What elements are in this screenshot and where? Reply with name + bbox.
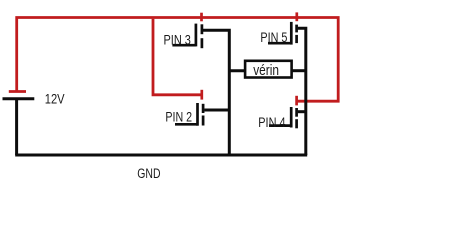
node tick at PIN 4 drain wire end [295, 96, 298, 106]
svg-text:PIN 5: PIN 5 [260, 30, 287, 46]
transistor PIN 5 (high-side right MOSFET) [268, 22, 297, 45]
node tick at PIN 2 drain wire end [200, 90, 203, 100]
wire left rail (PIN3 source / PIN2 drain / verin left) [203, 30, 229, 155]
transistor PIN 4 (low-side right MOSFET) [269, 107, 297, 128]
node tick above PIN 3 drain on red bus [200, 13, 203, 22]
wire PIN 4 drain lead to right rail [298, 110, 306, 113]
svg-text:PIN 4: PIN 4 [258, 115, 285, 131]
wire verin left lead [229, 69, 246, 72]
node tick above PIN 5 drain on red bus [295, 12, 298, 21]
transistor PIN 3 (high-side left MOSFET) [172, 24, 202, 49]
battery positive plate (red) [9, 90, 26, 93]
actuator (verin) box [245, 61, 292, 78]
svg-text:12V: 12V [45, 91, 65, 107]
wire battery negative to ground bus [15, 99, 18, 155]
wire red bus with left drop to battery and right drop to PIN4 branch [17, 18, 339, 102]
wire PIN 2 drain lead to left rail [204, 109, 229, 112]
battery V1 negative plate (black) [3, 97, 35, 100]
wire verin right lead [291, 69, 306, 72]
wire GND bottom bus [15, 154, 307, 157]
svg-text:PIN 2: PIN 2 [165, 110, 192, 126]
wire: +12V red bus from battery top-left corner to top-right corner [17, 18, 339, 102]
wire right rail (PIN5 source / PIN4 drain / verin right) [298, 28, 306, 155]
transistor PIN 2 (low-side left MOSFET) [175, 103, 203, 126]
wire red branch to PIN 2 [153, 19, 202, 95]
svg-text:PIN 3: PIN 3 [164, 33, 191, 49]
svg-text:GND: GND [137, 166, 160, 182]
svg-text:vérin: vérin [253, 63, 279, 79]
